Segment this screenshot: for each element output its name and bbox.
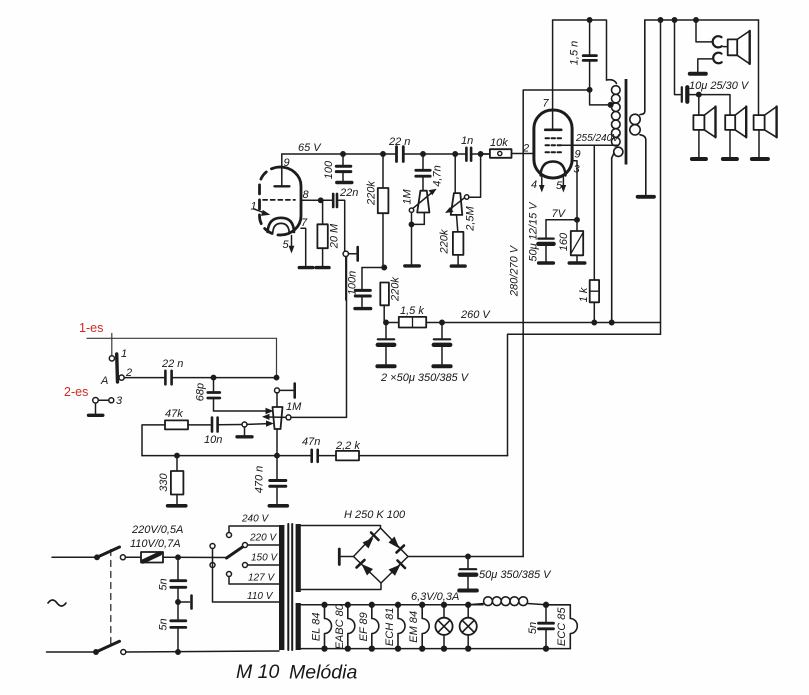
svg-text:7V: 7V (552, 208, 567, 220)
capacitor 100 (anode bypass) (336, 152, 352, 183)
resistor 1k (590, 145, 599, 324)
svg-text:9: 9 (575, 149, 581, 161)
2x50u label (380, 372, 470, 384)
ECH81 heater label (384, 608, 396, 647)
330 label (158, 472, 170, 491)
svg-text:4,7n: 4,7n (431, 165, 443, 186)
node 100n junction (362, 265, 386, 269)
svg-text:ECH 81: ECH 81 (384, 608, 396, 647)
resistor 220k (2,5M leg) (451, 215, 465, 266)
heater supply top rail (301, 604, 483, 606)
potentiometer 2,5M (445, 154, 481, 215)
65V anode rail (282, 153, 396, 155)
svg-text:7: 7 (543, 98, 550, 110)
svg-text:22n: 22n (339, 187, 358, 199)
label 1-es (red) (79, 321, 103, 335)
volume potentiometer 1M body (273, 393, 283, 456)
V2 pin 7 anode lead (552, 20, 554, 129)
svg-text:2,2 k: 2,2 k (335, 440, 360, 452)
svg-text:150 V: 150 V (251, 553, 278, 564)
chassis tab at 5n midpoint (176, 596, 192, 609)
20M label (328, 223, 340, 249)
svg-text:110V/0,7A: 110V/0,7A (130, 538, 181, 550)
V2 pin 5 heater arrow (561, 177, 567, 193)
50u 12/15V label (527, 201, 539, 262)
svg-text:1: 1 (121, 348, 127, 360)
bridge label (344, 509, 406, 521)
V1 pin 7 label (301, 217, 308, 229)
B+ tap into OT primary (590, 90, 611, 105)
capacitor 1n (453, 148, 490, 161)
10k label (490, 137, 508, 149)
heater EL84 (322, 602, 331, 651)
HV secondary bottom wire to bridge (301, 583, 381, 590)
V1 pin 5 heater arrow (289, 236, 295, 254)
7V label (552, 208, 567, 220)
dial lamp 2 (460, 602, 477, 651)
output transformer secondary winding (630, 20, 654, 197)
220k 2,5M leg label (438, 229, 450, 254)
grid tab above volume pot (275, 384, 295, 398)
resistor 2,2k (feedback) (336, 451, 508, 461)
node rail corner to signal (274, 338, 278, 380)
heater supply bottom rail (301, 648, 571, 650)
jack ground return (690, 59, 712, 74)
svg-text:A: A (100, 375, 108, 387)
svg-text:1n: 1n (461, 135, 473, 147)
svg-text:5n: 5n (157, 618, 169, 630)
260V label (460, 309, 491, 321)
svg-text:3: 3 (116, 395, 123, 407)
V1 pin 5 label (283, 239, 290, 251)
heater RF choke (468, 597, 546, 606)
svg-text:EABC 80: EABC 80 (334, 603, 346, 649)
tap labels (241, 514, 278, 603)
pickup input rail (87, 337, 277, 339)
V2 pin 2 label (522, 143, 529, 155)
svg-text:280/270 V: 280/270 V (509, 244, 521, 297)
150V tap wire (248, 564, 280, 566)
V1 cathode dome (268, 218, 294, 233)
65V label (298, 142, 322, 154)
svg-text:1 k: 1 k (578, 287, 590, 302)
V2 screen line pin 9 to OT (560, 144, 618, 146)
svg-text:Melódia: Melódia (289, 662, 357, 684)
output transformer core (625, 79, 628, 165)
speaker SP3 (723, 107, 746, 159)
68p label (194, 383, 206, 401)
speaker SP1 (top, via jack) (723, 31, 749, 64)
V1 pin 1 arrow (254, 209, 271, 216)
resistor 20M (316, 200, 329, 267)
resistor 10k (grid stopper) (478, 149, 534, 158)
svg-text:1M: 1M (286, 401, 302, 413)
svg-text:10μ 25/30 V: 10μ 25/30 V (689, 80, 750, 92)
switch gang link (dashed) (110, 550, 112, 644)
capacitor 10u 25/30V (672, 18, 730, 115)
255/240V label (575, 133, 620, 144)
feedback riser to output stage (508, 334, 661, 455)
svg-text:50μ 12/15 V: 50μ 12/15 V (527, 201, 539, 262)
rectifier bridge H250K100 frame (354, 528, 409, 583)
capacitor 100n (355, 268, 371, 309)
electrolytic 50u 12/15V (cathode) (538, 220, 553, 263)
svg-text:2,5M: 2,5M (465, 205, 477, 231)
resistor 220k (V1 load) (378, 152, 389, 268)
power transformer primary winding bar (279, 525, 284, 650)
capacitor 10n (212, 418, 242, 432)
svg-text:2-es: 2-es (64, 385, 88, 399)
EM84 heater label (408, 611, 420, 643)
svg-text:22 n: 22 n (161, 358, 183, 370)
ground at contact 3 (89, 403, 103, 415)
svg-text:2 ×50μ 350/385 V: 2 ×50μ 350/385 V (380, 372, 470, 384)
svg-text:9: 9 (284, 157, 290, 169)
240V tap wire (229, 526, 279, 533)
svg-text:5n: 5n (157, 578, 169, 590)
svg-text:EL 84: EL 84 (310, 613, 322, 642)
volume pot wiper arrow (262, 414, 291, 420)
voltage selector blade (227, 547, 243, 558)
V2 pin 3 label (574, 164, 581, 176)
1,5k label (400, 305, 424, 317)
svg-text:240 V: 240 V (241, 514, 269, 525)
HV secondary top wire to bridge (301, 526, 381, 529)
svg-text:EM 84: EM 84 (408, 611, 420, 643)
svg-text:220k: 220k (438, 229, 450, 254)
contact 3 label (116, 395, 123, 407)
280/270V label (509, 244, 521, 297)
heater ECH81 (396, 602, 405, 651)
wire lower mains to transformer (126, 651, 279, 652)
heater EM84 (420, 602, 429, 651)
resistor 220k (decoupling) (380, 283, 389, 323)
V2 pin 3 cathode lead (572, 161, 577, 220)
V1 pin 8 label (303, 189, 310, 201)
220k V1 load label (365, 181, 377, 206)
wire fuse to selector (163, 556, 227, 558)
svg-text:M 10: M 10 (236, 661, 280, 683)
V2 pin 9 label (575, 149, 581, 161)
svg-text:H 250 K 100: H 250 K 100 (344, 509, 406, 521)
power transformer HV secondary bar (296, 524, 301, 592)
10n label (204, 434, 222, 446)
100 label (323, 160, 335, 179)
title M10 Melodia (236, 661, 357, 684)
svg-text:8: 8 (303, 189, 310, 201)
speaker SP2 feed riser (698, 95, 700, 116)
output transformer primary winding (607, 80, 623, 325)
selector switch A blade (115, 354, 119, 382)
ECC85 heater label (556, 607, 568, 646)
mains plug terminals (47, 557, 99, 652)
4,7n label (431, 165, 443, 186)
volume pot label 1M (286, 401, 302, 413)
svg-text:EF 89: EF 89 (358, 612, 370, 641)
EABC80 heater label (334, 603, 346, 649)
V2 pin 4 heater arrow (539, 177, 545, 193)
svg-text:220 V: 220 V (249, 533, 277, 544)
47k label (165, 408, 183, 420)
svg-text:100n: 100n (346, 271, 358, 295)
bridge minus chassis tab (339, 549, 353, 565)
headphone jack feed (694, 18, 712, 42)
diode D2 top-right (389, 537, 405, 553)
capacitor 22n (input coupling) (165, 371, 276, 385)
V2 cathode dome (541, 162, 566, 176)
potentiometer 1M (tone) (409, 189, 436, 213)
svg-text:1,5 n: 1,5 n (568, 41, 580, 65)
capacitor 22n (grid cap V1) (319, 194, 345, 251)
wire contact2 to 22n (124, 377, 164, 379)
svg-text:260 V: 260 V (460, 309, 491, 321)
mains switch upper pole (95, 547, 126, 560)
svg-text:1-es: 1-es (79, 321, 103, 335)
V2 pin 5 label (556, 180, 563, 192)
bridge plus output wire (408, 556, 523, 558)
V1 anode and pin 9 lead (275, 154, 290, 187)
svg-text:330: 330 (158, 472, 170, 491)
V2 pin 4 label (531, 179, 537, 191)
svg-text:220V/0,5A: 220V/0,5A (131, 524, 183, 536)
7V cathode line (546, 218, 579, 222)
V2 pin 7 label (543, 98, 550, 110)
B+ riser from rectifier (523, 90, 589, 557)
svg-text:3: 3 (574, 164, 581, 176)
reservoir cap label (479, 569, 552, 581)
EL84 heater label (310, 613, 322, 642)
22n grid cap label (339, 187, 358, 199)
resistor 1,5k (384, 317, 442, 328)
svg-text:10k: 10k (490, 137, 508, 149)
capacitor 5n (heater RF filter) (539, 602, 554, 651)
160 label (558, 232, 570, 251)
speaker SP4 (right, from rail) (752, 20, 777, 159)
anode top rail to OT primary (553, 20, 607, 80)
capacitor 4,7n (416, 152, 430, 191)
capacitor 5n (lower mains filter) (171, 602, 186, 654)
capacitor 68p (208, 375, 266, 411)
capacitor 470n (269, 456, 287, 506)
voltage selector contacts (210, 533, 248, 577)
headphone jack upper spring (713, 36, 722, 47)
47n label (302, 436, 320, 448)
feedback takeoff riser (658, 18, 662, 334)
output tab of V1 stage (343, 247, 358, 300)
diode D3 bottom-left (357, 560, 374, 576)
fuse rating labels (130, 524, 183, 550)
resistor 160 (cathode) (569, 220, 584, 263)
svg-text:10n: 10n (204, 434, 222, 446)
capacitor 5n (upper mains filter) (171, 555, 186, 602)
speaker SP2 (692, 107, 716, 159)
V2 grid dashes (546, 138, 562, 152)
svg-text:6,3V/0,3A: 6,3V/0,3A (411, 591, 459, 603)
tube V2 EL84 envelope (534, 110, 572, 178)
2,2k label (335, 440, 360, 452)
capacitor 1,5n (583, 18, 596, 92)
220k decoupling label (389, 277, 401, 302)
svg-text:5: 5 (283, 239, 290, 251)
contact 3 pair (93, 398, 114, 404)
260V rail (440, 320, 661, 324)
svg-text:22 n: 22 n (388, 136, 410, 148)
diode D1 top-left (363, 533, 379, 549)
diode D4 bottom-right (389, 561, 406, 576)
fuse F1 (126, 552, 164, 563)
22n interstage label (388, 136, 410, 148)
110V tap wire with spare contacts column (213, 549, 280, 603)
mains switch lower pole (94, 641, 126, 654)
1,5n label (568, 41, 580, 65)
10u label (689, 80, 750, 92)
svg-text:1M: 1M (401, 189, 413, 205)
svg-text:47n: 47n (302, 436, 320, 448)
heater EF89 (369, 602, 378, 651)
resistor 47k (142, 420, 211, 455)
capacitor 22n (interstage on 65V rail) (397, 147, 467, 162)
470n label (253, 466, 265, 494)
electrolytic 50u no2 (433, 323, 450, 367)
svg-text:110 V: 110 V (247, 591, 274, 602)
svg-text:1: 1 (251, 201, 257, 213)
svg-text:7: 7 (301, 217, 308, 229)
5n heater label (527, 622, 539, 634)
reservoir capacitor 50u 350/385V (459, 554, 477, 590)
10n tap arrow into pot (266, 420, 274, 426)
svg-text:68p: 68p (194, 383, 206, 401)
heater label 6,3V (411, 591, 459, 603)
svg-text:127 V: 127 V (248, 573, 275, 584)
10n tap terminal and ground (237, 422, 266, 437)
headphone jack lower spring (713, 53, 721, 64)
220V tap wire (248, 544, 280, 546)
1k label (578, 287, 590, 302)
heater ECC85 (546, 605, 577, 649)
svg-text:160: 160 (558, 232, 570, 251)
svg-text:ECC 85: ECC 85 (556, 607, 568, 646)
svg-text:5: 5 (556, 180, 563, 192)
capacitor 47n (feedback) (312, 450, 336, 462)
2,5M label (465, 205, 477, 231)
V1 pin 9 label (284, 157, 290, 169)
svg-text:470 n: 470 n (253, 466, 265, 494)
1M tone label (401, 189, 413, 205)
svg-text:220k: 220k (389, 277, 401, 302)
1n label (461, 135, 473, 147)
V1 pin 7 cathode lead to ground (299, 228, 313, 267)
heater EABC80 (345, 602, 354, 651)
svg-text:100: 100 (323, 160, 335, 179)
svg-text:220k: 220k (365, 181, 377, 206)
5n labels (157, 578, 169, 630)
resistor 330 (168, 456, 186, 506)
selector switch A contact 1 (109, 356, 114, 361)
svg-text:5n: 5n (527, 622, 539, 634)
dial lamp 1 (435, 602, 452, 651)
electrolytic 50u no1 (377, 323, 394, 367)
V2 anode plate (545, 129, 561, 132)
22n label (161, 358, 183, 370)
V1 grid (dashed) and pin 8 lead (263, 199, 319, 201)
feedback bus wire (142, 453, 310, 457)
power transformer core (288, 524, 292, 650)
svg-text:20 M: 20 M (328, 223, 340, 249)
svg-text:65 V: 65 V (298, 142, 322, 154)
wiper output wire (291, 257, 347, 418)
svg-text:4: 4 (531, 179, 537, 191)
power transformer heater secondary bar (296, 603, 301, 650)
selector switch A contact 2 (119, 375, 124, 380)
svg-text:50μ 350/385 V: 50μ 350/385 V (479, 569, 552, 581)
V1 pin 1 label (251, 201, 257, 213)
68p tap arrow into pot (266, 408, 274, 415)
svg-text:1,5 k: 1,5 k (400, 305, 424, 317)
svg-text:47k: 47k (165, 408, 183, 420)
EF89 heater label (358, 612, 370, 641)
speaker supply top rail (645, 19, 759, 21)
1M pot ground (405, 212, 425, 266)
127V tap wire (229, 577, 279, 585)
100n label (346, 271, 358, 295)
tube V1 EABC80 triode envelope (260, 167, 302, 235)
label 2-es (red) (64, 385, 88, 399)
switch pin labels (100, 348, 132, 387)
tick from rail to contact 1 (111, 334, 113, 356)
AC symbol (48, 600, 66, 606)
